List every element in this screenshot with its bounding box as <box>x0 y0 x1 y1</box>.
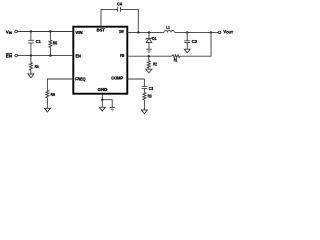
wire VOUT rail <box>175 31 219 33</box>
resistor R6 <box>46 90 49 97</box>
svg-text:EN: EN <box>6 53 12 58</box>
wire SW rail <box>127 31 164 33</box>
node R4 junction <box>30 54 32 56</box>
svg-text:C1: C1 <box>36 39 41 44</box>
svg-text:R2: R2 <box>153 61 157 66</box>
svg-text:R3: R3 <box>148 94 152 99</box>
svg-text:C3: C3 <box>149 86 154 91</box>
wire FREQ <box>47 79 73 90</box>
wire FB rail <box>127 55 171 57</box>
svg-text:C2: C2 <box>192 39 198 44</box>
wire BST <box>101 9 118 26</box>
node feedback tap junction <box>210 31 212 33</box>
node D1 top junction <box>148 31 150 33</box>
ground earth under GND <box>110 108 115 111</box>
capacitor C4 <box>118 7 121 12</box>
resistor R1 <box>172 55 180 58</box>
svg-text:L1: L1 <box>166 25 170 30</box>
ground earth under D1 <box>146 49 151 52</box>
ground under R4 <box>28 74 34 78</box>
ground under R3 <box>141 110 147 114</box>
svg-text:R4: R4 <box>35 64 39 69</box>
capacitor C1 <box>28 32 34 56</box>
node R2 junction <box>148 55 150 57</box>
inductor L1 <box>164 30 175 32</box>
svg-text:R5: R5 <box>53 41 58 46</box>
svg-text:BST: BST <box>97 27 106 32</box>
svg-text:R6: R6 <box>51 92 56 97</box>
wire VIN rail <box>17 31 73 33</box>
node C4 drop junction <box>137 31 139 33</box>
resistor R2 <box>148 56 150 60</box>
svg-text:VIN: VIN <box>75 30 82 35</box>
node C2 junction <box>186 31 188 33</box>
ground under R6 <box>44 108 50 112</box>
node VOUT terminal <box>218 31 221 34</box>
wire EN rail <box>18 55 74 57</box>
svg-text:VOUT: VOUT <box>223 29 233 35</box>
resistor R3 <box>143 92 146 99</box>
capacitor C2 <box>184 32 190 49</box>
node C1 top junction <box>30 30 32 32</box>
svg-text:D1: D1 <box>152 36 157 41</box>
resistor R4 <box>30 56 32 63</box>
svg-text:R1: R1 <box>174 58 178 63</box>
resistor R5 <box>49 32 51 41</box>
ground under R2 <box>146 69 152 73</box>
svg-text:VIN: VIN <box>6 29 13 35</box>
wire C4 to SW <box>120 9 138 32</box>
node VIN terminal <box>15 30 18 33</box>
node EN terminal <box>15 54 18 57</box>
capacitor C3 <box>142 86 148 92</box>
svg-text:GND: GND <box>98 87 108 92</box>
ground triangle under GND <box>99 107 105 111</box>
wire GND to earth <box>102 100 112 108</box>
diode D1 (Schottky) <box>148 32 150 38</box>
ground under C2 <box>184 49 190 53</box>
node R5 bottom junction <box>49 54 51 56</box>
svg-text:C4: C4 <box>117 1 123 6</box>
wire COMP <box>127 79 144 86</box>
svg-text:EN: EN <box>75 54 80 59</box>
wire feedback tap <box>180 32 211 56</box>
node GND junction <box>101 99 103 101</box>
wire GND pin <box>101 94 103 108</box>
IC U1 body <box>73 27 127 94</box>
node R5 top junction <box>49 30 51 32</box>
svg-text:FB: FB <box>120 53 124 58</box>
svg-text:SW: SW <box>119 29 124 34</box>
svg-text:COMP: COMP <box>111 75 123 80</box>
svg-text:FREQ: FREQ <box>75 76 86 81</box>
